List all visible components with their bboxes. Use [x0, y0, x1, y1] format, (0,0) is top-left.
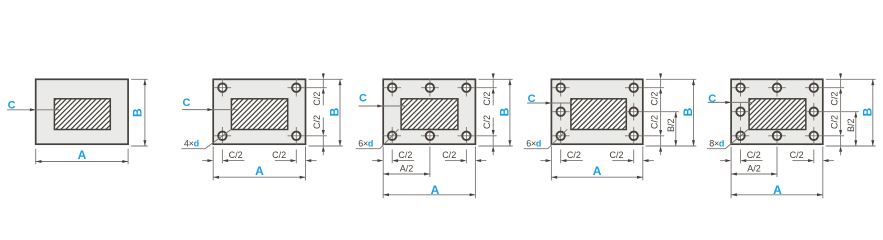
leader diagonal 6×d plate 3	[380, 129, 399, 149]
svg-text:C/2: C/2	[229, 150, 243, 160]
svg-text:C/2: C/2	[747, 150, 761, 160]
svg-text:B/2: B/2	[846, 118, 856, 132]
dimension line B/2	[675, 112, 677, 146]
hatched cavity plate 4	[541, 98, 659, 131]
hole plate 3 top x=429.9	[421, 79, 439, 97]
hatched cavity plate 5	[719, 98, 837, 131]
dimension line A	[731, 194, 823, 196]
extension line bottom hole right plate 3	[465, 150, 467, 164]
extension line middle hole right	[644, 111, 679, 113]
extension line bottom hole left plate 3	[391, 150, 393, 164]
dimension C/2 bottom left (plate edge to hole)	[372, 160, 377, 162]
dimension line A	[383, 194, 475, 196]
leader line C plate 5	[708, 101, 753, 103]
extension line bottom hole right plate 5	[813, 150, 815, 164]
extension line A left plate 1	[35, 149, 37, 164]
dimension C/2 bottom left (plate edge to hole)	[540, 160, 545, 162]
extension line A right plate 1	[127, 149, 129, 164]
extension line bottom hole mid plate 5	[776, 147, 778, 178]
svg-text:A: A	[431, 183, 440, 197]
svg-text:C: C	[708, 93, 716, 105]
leader diagonal 6×d plate 4	[548, 129, 568, 149]
dimension line A/2	[383, 173, 430, 175]
svg-text:B: B	[328, 107, 342, 116]
dimension line B	[339, 79, 341, 146]
leader line C plate 4	[527, 102, 571, 104]
hole plate 5 bottom x=813.8	[805, 127, 823, 145]
dimension line B/2	[855, 112, 857, 146]
hole plate 2 top x=222.4	[214, 79, 232, 97]
svg-text:B/2: B/2	[666, 118, 676, 132]
extension line bottom left plate 4	[550, 147, 552, 181]
extension line plate bottom right	[646, 145, 697, 147]
svg-text:C/2: C/2	[649, 92, 659, 106]
extension line bottom hole left plate 4	[560, 150, 562, 164]
dimension C/2 upper (plate top to top hole)	[492, 72, 494, 74]
plate outline plate 5	[731, 79, 823, 144]
extension line top hole right	[824, 87, 844, 89]
hole plate 4 mid x=633.7	[625, 103, 643, 121]
svg-text:C/2: C/2	[790, 150, 804, 160]
dimension line A/2	[731, 173, 777, 175]
extension line bottom hole left plate 5	[740, 150, 742, 164]
dimension C/2 lower (bottom hole to plate bottom)	[492, 118, 494, 131]
dimension C/2 upper (plate top to top hole)	[840, 72, 842, 74]
svg-text:A: A	[773, 183, 782, 197]
dimension C/2 bottom right (hole to plate edge)	[612, 160, 628, 162]
dimension C/2 bottom left (plate edge to hole)	[202, 160, 207, 162]
svg-text:C/2: C/2	[567, 150, 581, 160]
extension line bottom right plate 4	[642, 147, 644, 181]
svg-text:4×d: 4×d	[184, 138, 199, 148]
extension line bottom hole right	[307, 135, 327, 137]
hole plate 5 bottom x=740.5	[732, 127, 750, 145]
svg-text:C/2: C/2	[609, 150, 623, 160]
extension line bottom hole right	[644, 135, 664, 137]
leader line C plate 1	[7, 109, 60, 111]
extension line bottom hole left plate 2	[221, 150, 223, 164]
svg-text:6×d: 6×d	[358, 138, 373, 148]
dimension C/2 bottom left (plate edge to hole)	[720, 160, 725, 162]
svg-text:A: A	[78, 148, 87, 162]
svg-text:C/2: C/2	[398, 150, 412, 160]
leader line 6×d plate 4	[524, 148, 548, 150]
dimension line A	[551, 176, 642, 178]
hole plate 3 top x=466.4	[458, 79, 476, 97]
svg-text:C/2: C/2	[482, 92, 492, 106]
svg-text:C/2: C/2	[829, 115, 839, 129]
extension line plate top right	[826, 78, 876, 80]
extension line bottom left plate 2	[212, 147, 214, 181]
svg-text:A/2: A/2	[747, 164, 761, 174]
extension line bottom right plate 3	[474, 147, 476, 199]
hole plate 4 bottom x=633.7	[625, 127, 643, 145]
hole plate 4 top x=633.7	[625, 79, 643, 97]
svg-text:A: A	[593, 164, 602, 178]
hole plate 4 mid x=560.7	[552, 103, 570, 121]
extension line bottom hole right plate 2	[295, 150, 297, 164]
plate outline plate 3	[383, 79, 475, 144]
hatched cavity plate 1	[25, 98, 143, 131]
svg-text:6×d: 6×d	[526, 138, 541, 148]
extension line bottom hole right	[476, 135, 496, 137]
dimension line B plate 1	[144, 79, 146, 146]
dimension C/2 lower (bottom hole to plate bottom)	[660, 112, 662, 130]
dimension line B	[509, 79, 511, 146]
extension line bottom hole mid plate 3	[429, 147, 431, 178]
hole plate 3 bottom x=466.4	[458, 127, 476, 145]
hole plate 3 bottom x=429.9	[421, 127, 439, 145]
hole plate 4 bottom x=560.7	[552, 127, 570, 145]
dimension line A	[213, 176, 305, 178]
extension line bottom left plate 3	[382, 147, 384, 199]
dimension C/2 bottom right (hole to plate edge)	[275, 160, 291, 162]
hatched cavity plate 3	[371, 98, 489, 131]
hole plate 5 bottom x=777.0	[768, 127, 786, 145]
extension line top B plate 1	[131, 78, 148, 80]
leader diagonal 8×d plate 5	[725, 129, 748, 149]
dimension C/2 bottom right (hole to plate edge)	[792, 160, 808, 162]
svg-text:C/2: C/2	[272, 150, 286, 160]
extension line plate top right	[646, 78, 697, 80]
plate outline plate 1	[36, 79, 128, 144]
extension line bottom hole right plate 4	[633, 150, 635, 164]
hole plate 5 top x=777.0	[768, 79, 786, 97]
svg-text:C/2: C/2	[482, 115, 492, 129]
svg-text:C/2: C/2	[312, 92, 322, 106]
extension line plate bottom right	[826, 145, 876, 147]
svg-text:C/2: C/2	[829, 92, 839, 106]
svg-text:B: B	[681, 107, 695, 116]
hole plate 3 top x=392.2	[383, 79, 401, 97]
extension line top hole right	[476, 87, 496, 89]
svg-text:8×d: 8×d	[709, 138, 724, 148]
leader line 6×d plate 3	[356, 148, 380, 150]
extension line bottom B plate 1	[131, 145, 148, 147]
svg-text:A/2: A/2	[400, 164, 414, 174]
dimension line B	[872, 79, 874, 146]
dimension C/2 upper (plate top to top hole)	[322, 72, 324, 74]
extension line top hole right	[307, 87, 327, 89]
dimension C/2 lower (bottom hole to plate bottom)	[840, 112, 842, 130]
hatched cavity plate 2	[202, 98, 320, 131]
plate outline plate 4	[551, 79, 642, 144]
svg-text:B: B	[131, 108, 145, 117]
leader line 4×d plate 2	[182, 148, 205, 150]
dimension C/2 bottom right (hole to plate edge)	[445, 160, 461, 162]
hole plate 2 top x=296.3	[288, 79, 306, 97]
leader diagonal 4×d plate 2	[205, 129, 232, 149]
svg-text:C: C	[183, 97, 191, 109]
hole plate 4 top x=560.7	[552, 79, 570, 97]
hole plate 5 mid right	[805, 103, 823, 121]
extension line bottom right plate 2	[305, 147, 307, 181]
svg-text:C/2: C/2	[442, 150, 456, 160]
extension line bottom left plate 5	[730, 147, 732, 199]
hole plate 5 mid left	[732, 103, 750, 121]
hole plate 5 top x=740.5	[732, 79, 750, 97]
extension line plate top right	[478, 78, 512, 80]
leader line C plate 2	[182, 109, 237, 111]
extension line bottom hole right	[824, 135, 844, 137]
dimension C/2 upper (plate top to top hole)	[660, 72, 662, 74]
hole plate 2 bottom x=296.3	[288, 127, 306, 145]
hole plate 2 bottom x=222.4	[214, 127, 232, 145]
extension line bottom right plate 5	[822, 147, 824, 199]
svg-text:C/2: C/2	[649, 115, 659, 129]
extension line top hole right	[644, 87, 664, 89]
svg-text:B: B	[861, 107, 875, 116]
svg-text:B: B	[498, 107, 512, 116]
svg-text:C: C	[359, 92, 367, 104]
extension line middle hole right	[824, 111, 859, 113]
svg-text:A: A	[255, 164, 264, 178]
extension line plate top right	[309, 78, 343, 80]
dimension C/2 lower (bottom hole to plate bottom)	[322, 118, 324, 131]
svg-text:C/2: C/2	[312, 115, 322, 129]
leader line 8×d plate 5	[707, 148, 725, 150]
hole plate 3 bottom x=392.2	[383, 127, 401, 145]
dimension line B	[693, 79, 695, 146]
extension line plate bottom right	[478, 145, 512, 147]
leader line C plate 3	[359, 105, 407, 107]
plate outline plate 2	[213, 79, 305, 144]
dimension line A	[36, 161, 128, 163]
hole plate 5 top x=813.8	[805, 79, 823, 97]
extension line plate bottom right	[309, 145, 343, 147]
